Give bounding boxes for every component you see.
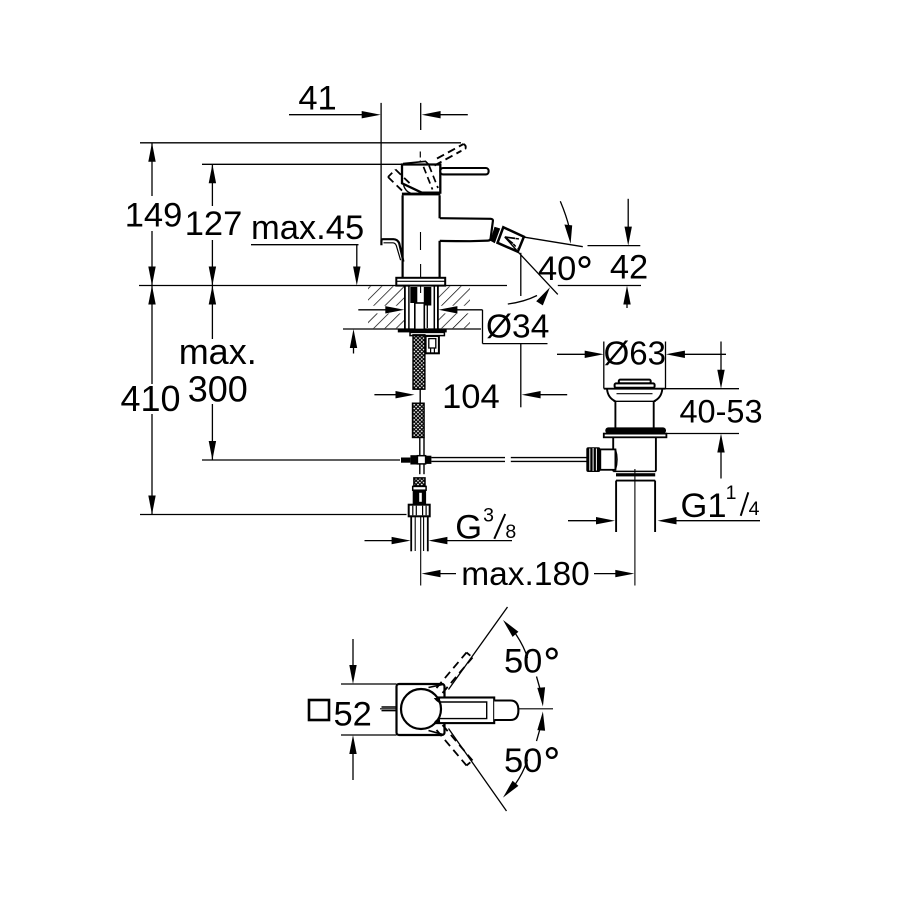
drain knurled knob [586, 447, 600, 472]
G38 connector slot [419, 493, 422, 502]
dashed handle lower line 2 [443, 725, 473, 761]
arrowhead O34 left [385, 306, 404, 313]
svg-text:Ø63: Ø63 [604, 335, 666, 372]
washer below deck [398, 329, 447, 333]
top view corner chamfer upper [429, 684, 445, 687]
svg-text:1: 1 [726, 482, 737, 504]
horizontal rod segment 2 [511, 457, 587, 459]
square symbol [309, 700, 329, 720]
svg-text:104: 104 [442, 378, 500, 416]
arrowhead square52 top [349, 665, 356, 684]
svg-text:40-53: 40-53 [679, 394, 762, 430]
arrowhead O63 left [585, 351, 604, 358]
pull rod lower [419, 464, 421, 474]
drain knob housing [600, 449, 615, 469]
drain stopper cap top [619, 380, 651, 384]
faucet body left wall [402, 195, 404, 277]
dashed lowered handle line 1 [388, 177, 403, 192]
drain ring line [616, 480, 655, 482]
top view spout inner [439, 702, 487, 719]
arrowhead G38 left [392, 537, 411, 544]
dashed raised lever line 2 [435, 151, 462, 166]
dashed handle upper line 1 [437, 653, 467, 689]
threaded shank lower [413, 403, 425, 437]
hex nut [409, 505, 430, 517]
arrowhead square52 bottom [349, 735, 356, 754]
arrowhead O63 right [666, 351, 685, 358]
degree circle lower 50 [547, 748, 557, 758]
top of handle reference line [202, 163, 403, 165]
dashed raised lever tip [461, 144, 466, 151]
deck hatch left upper [368, 286, 404, 306]
deck bottom line [343, 328, 481, 330]
dimension 42 lines [627, 199, 629, 228]
pop-up knob inner line [384, 243, 401, 260]
shank inner line [426, 306, 428, 329]
50deg lower line [449, 729, 507, 812]
shank tube right line [433, 286, 435, 332]
svg-text:40: 40 [538, 250, 576, 288]
arrowhead 41 right [422, 111, 441, 118]
aerator flow arrow [505, 237, 515, 243]
svg-text:max.: max. [179, 331, 257, 372]
handle lever bar [440, 168, 488, 174]
dimension max.300 line [211, 286, 213, 340]
dimension O63 lines [557, 353, 586, 355]
faucet body centerline [420, 232, 422, 250]
supply tube walls [410, 516, 412, 551]
washer second layer [410, 332, 444, 335]
50deg upper arc piece 1 [515, 633, 528, 658]
drain flare left [607, 389, 615, 401]
arrowhead 104 right [522, 391, 541, 398]
drain body walls lower [612, 437, 614, 471]
40deg lower arc [508, 296, 537, 305]
top view spout outer [434, 698, 494, 724]
dimension 41 lines [289, 114, 363, 116]
arrowhead max300 bottom [209, 441, 216, 460]
top view circle body [401, 689, 441, 729]
arrowhead 410 bottom [148, 496, 155, 515]
rod coupling left block [401, 458, 410, 463]
spout [440, 218, 493, 241]
pop-up knob side view [381, 239, 403, 261]
dimension G3/8 lines [365, 540, 394, 542]
deck top surface line [139, 285, 507, 287]
arrowhead max180 right [615, 570, 634, 577]
MOUNTING DECK [368, 286, 470, 328]
svg-text:50: 50 [504, 643, 542, 681]
faucet body right wall upper [439, 195, 441, 218]
svg-text:52: 52 [334, 696, 372, 734]
arrowhead 149 top [148, 143, 155, 162]
top view junction wedge lower [434, 718, 440, 723]
dimension 40-53 lines [666, 388, 740, 390]
top view centerline [380, 708, 553, 710]
arrowhead 104 left [396, 391, 415, 398]
dimension G1 1/4 line [568, 520, 598, 522]
svg-text:127: 127 [185, 205, 243, 243]
arrowhead 40deg lower [536, 287, 550, 305]
top view square body [397, 684, 445, 735]
pull rod upper [419, 438, 421, 456]
50deg lower arc piece 2 [537, 716, 543, 741]
deck hatch right upper [439, 286, 470, 306]
dashed lever inside handle line 2 [429, 166, 438, 189]
pop-up rod reference line [202, 459, 400, 461]
arrowhead 127 bottom [209, 267, 216, 286]
arrowhead 149 bottom [148, 267, 155, 286]
aerator group [490, 227, 524, 252]
dashed lowered handle line 2 [396, 170, 411, 185]
arrowhead max45 down [353, 267, 360, 286]
spout outlet projection line lower [520, 344, 522, 408]
hex nut flats [412, 506, 414, 516]
drain body step line [613, 470, 656, 472]
arrowhead max300 top [209, 286, 216, 305]
40deg upper leader curve [560, 201, 569, 229]
threaded shank upper [413, 335, 425, 389]
shank inner block left [410, 287, 417, 303]
top of lifted lever reference line [140, 142, 461, 144]
svg-text:8: 8 [505, 521, 516, 543]
svg-text:G: G [455, 509, 482, 547]
degree circle upper 50 [547, 649, 557, 659]
handle underside curve [404, 185, 411, 193]
arrowhead G1 right [658, 517, 677, 524]
arrowhead 41 left [362, 111, 381, 118]
shank center stud [415, 303, 425, 330]
top view corner chamfer lower [429, 731, 445, 735]
arrowhead 42 top [625, 227, 632, 246]
top view aerator junction line [493, 698, 495, 724]
arrowhead 50deg lower on line [503, 781, 518, 798]
drain housing curve [615, 449, 617, 469]
handle base black band [402, 193, 440, 196]
deck hatch right lower [439, 313, 470, 328]
dashed raised lever line 1 [437, 144, 464, 159]
base flange [396, 278, 445, 286]
50deg upper line [449, 607, 508, 690]
aerator separation band [490, 227, 500, 243]
svg-text:300: 300 [188, 369, 248, 410]
spray angle line upper [525, 237, 583, 247]
square52 arrow line bottom [352, 752, 354, 780]
arrowhead max45 up [350, 329, 357, 348]
square52 arrow line top [352, 639, 354, 667]
arrowhead max180 left [422, 570, 441, 577]
dashed handle lower line 1 [437, 730, 467, 766]
svg-text:3: 3 [483, 505, 494, 527]
svg-text:41: 41 [298, 80, 336, 118]
arrowhead G38 right [428, 537, 447, 544]
drain knob ridges [589, 449, 591, 471]
aerator dash detail lower [513, 244, 517, 249]
svg-text:G1: G1 [681, 487, 727, 525]
arrowhead G1 left [596, 517, 615, 524]
arrowhead 410 top [148, 286, 155, 305]
drain compression band [616, 473, 655, 476]
supply tube centerline [420, 516, 422, 585]
G38 connector black body [413, 490, 426, 504]
faucet centerline above handle [419, 152, 421, 163]
drain shoulder line [604, 388, 666, 390]
dimension 127 line [211, 164, 213, 206]
top view pop-up knob [382, 706, 397, 708]
svg-text:410: 410 [120, 378, 180, 419]
dimension 104 lines [374, 394, 397, 396]
G38 connector white band [413, 486, 426, 490]
svg-text:149: 149 [125, 197, 183, 235]
dashed lever inside handle line 1 [424, 167, 433, 190]
aerator housing [498, 227, 524, 252]
drain flare right [654, 389, 662, 401]
degree circle of 40deg [580, 257, 590, 267]
svg-text:4: 4 [749, 498, 760, 520]
mounting nut block [426, 336, 439, 353]
svg-text:max.45: max.45 [251, 209, 364, 247]
drain body top line [614, 400, 656, 402]
aerator dash detail upper [516, 238, 522, 241]
drain neck ring line [617, 393, 653, 395]
dimension max.180 lines [439, 573, 456, 575]
rod coupling center [417, 456, 425, 464]
drain gasket [605, 427, 666, 433]
arrowhead 50deg upper on centerline [537, 687, 545, 706]
dimension O34 leader [358, 309, 387, 311]
dimension 410 line [151, 286, 153, 385]
deck hatch left lower [368, 313, 404, 328]
spout outlet projection line upper [520, 253, 522, 296]
drain stopper cap lower [615, 383, 655, 387]
horizontal rod segment 1 [431, 457, 505, 459]
svg-text:42: 42 [610, 249, 648, 287]
dimension max.45 leader [251, 244, 359, 246]
deck top line right segment [558, 285, 641, 287]
drain pipe walls [615, 481, 617, 532]
aerator axis line [505, 237, 519, 252]
base flange inner line [396, 280, 445, 282]
dimension 149 line [151, 143, 153, 196]
fraction slash G3/8 [494, 514, 505, 539]
arrowhead 40-53 bottom [717, 434, 724, 453]
supply end reference line [140, 514, 407, 516]
deck hole right edge [437, 286, 439, 330]
faucet body right wall lower [439, 241, 441, 278]
rod coupling left flange [410, 455, 417, 464]
svg-text:50: 50 [504, 742, 542, 780]
arrowhead 42 bottom [623, 286, 630, 305]
mounting nut slot [429, 339, 436, 348]
shank tube left line [408, 286, 410, 332]
arrowhead 50deg lower on centerline [537, 712, 545, 731]
top view aerator [494, 701, 518, 721]
arrowhead 127 top [209, 164, 216, 183]
dashed handle upper cap [467, 653, 473, 658]
drain body walls upper [614, 401, 616, 427]
fraction slash G1 1/4 [741, 492, 749, 516]
G38 knurled adjuster [414, 478, 425, 486]
shank connector rod [419, 389, 421, 403]
dashed lowered handle cap [388, 170, 396, 178]
svg-text:max.180: max.180 [461, 556, 590, 593]
square52 ref line top [341, 683, 397, 685]
shank inner block right [424, 287, 432, 306]
svg-text:Ø34: Ø34 [486, 309, 549, 346]
top view junction wedge upper [434, 698, 440, 703]
arrowhead 50deg upper on line [503, 620, 518, 637]
dashed handle upper line 2 [443, 658, 473, 694]
rod coupling right flange [426, 456, 432, 464]
arrowhead 40deg upper [564, 225, 572, 244]
dashed handle lower cap [467, 761, 473, 766]
drain washer [604, 434, 667, 438]
handle cap top ridge [403, 161, 429, 164]
arrowhead O34 right [438, 306, 457, 313]
50deg upper arc piece 2 [537, 677, 543, 702]
faucet handle body [402, 165, 440, 193]
square52 ref line bottom [341, 734, 397, 736]
mounting nut notch lines [430, 348, 432, 353]
arrowhead 40-53 top [717, 370, 724, 389]
drain centerline [634, 469, 636, 586]
supply tube inner lines [414, 516, 416, 551]
deck hole left edge [404, 286, 406, 330]
50deg lower arc piece 1 [515, 760, 528, 785]
spray angle line lower [518, 252, 558, 294]
